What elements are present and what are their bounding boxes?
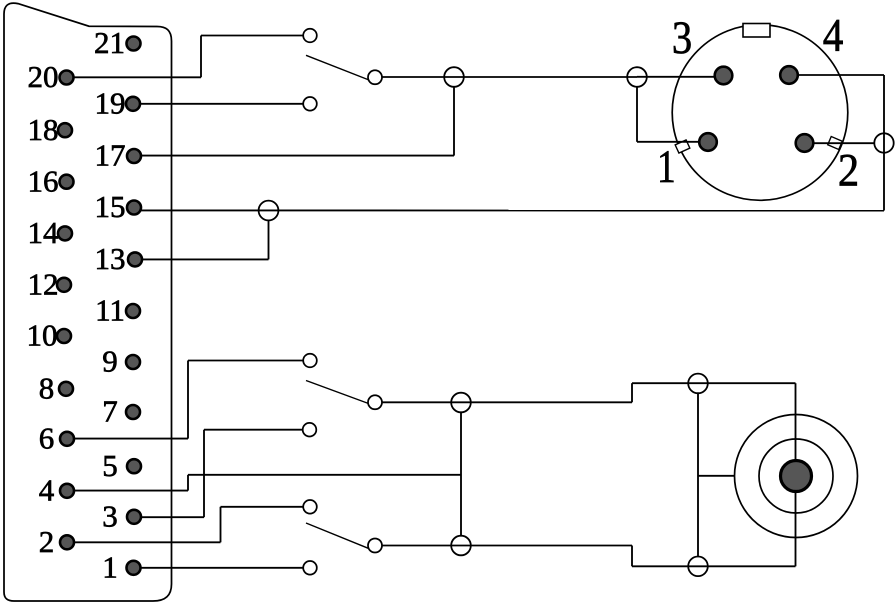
wire pin17 vertical to node A: [453, 87, 455, 156]
svg-text:8: 8: [39, 370, 55, 405]
wire pin3 vertical jog: [203, 430, 205, 518]
svg-text:18: 18: [28, 112, 59, 147]
wire pin15 rail to right side: [135, 209, 884, 211]
wire pin19 to switch SW1 contact b: [133, 103, 310, 105]
svg-text:21: 21: [94, 25, 125, 60]
wire pin13 vertical to node D: [268, 220, 270, 259]
switch SW1 contact a circle: [303, 29, 317, 43]
svg-text:20: 20: [28, 59, 59, 94]
DIN pin 1: [699, 133, 717, 151]
wire pin20 horizontal: [67, 76, 201, 78]
RCA connector J3 outer shield circle: [735, 415, 858, 538]
node E junction: [451, 393, 471, 413]
switch SW1 contact b circle: [303, 97, 317, 111]
node A junction: [444, 67, 464, 87]
wire pin20 vertical jog: [200, 36, 202, 78]
wire DIN pin 4 horizontal: [789, 74, 884, 76]
SCART pin 7: [126, 405, 140, 419]
node D junction: [259, 201, 279, 221]
node F junction: [451, 536, 471, 556]
DIN connector J2 keyway near pin 1: [675, 140, 690, 153]
wire node A to node B: [454, 76, 637, 78]
wire to RCA bottom: [632, 565, 796, 567]
SCART pin 8: [59, 382, 73, 396]
DIN pin 3: [715, 67, 733, 85]
DIN pin 4: [780, 66, 798, 84]
SCART pin 16: [60, 175, 74, 189]
switch SW3 contact a circle: [303, 500, 317, 514]
svg-text:11: 11: [95, 293, 125, 328]
wire to DIN pin 1: [637, 141, 708, 143]
SCART pin 6: [60, 432, 74, 446]
svg-text:5: 5: [102, 448, 118, 483]
wire pin4 to node bus: [188, 474, 461, 476]
wire pin3 to switch SW2 contact b: [204, 429, 310, 431]
SCART pin 21: [127, 37, 141, 51]
svg-text:1: 1: [102, 549, 118, 584]
wire pin6 to switch SW2 contact a: [188, 360, 310, 362]
svg-text:7: 7: [102, 394, 118, 429]
svg-text:4: 4: [39, 472, 55, 507]
node H junction: [688, 557, 708, 577]
svg-text:12: 12: [28, 266, 59, 301]
wire node G to node H vertical: [697, 393, 699, 557]
svg-text:17: 17: [95, 138, 126, 173]
wire node B to DIN pin 3: [637, 76, 724, 78]
switch SW2 arm: [306, 381, 369, 404]
SCART pin 3: [127, 510, 141, 524]
switch SW2 contact b circle: [303, 423, 317, 437]
wire jog up: [631, 383, 633, 402]
switch SW1 common circle: [368, 70, 382, 84]
DIN connector J2 keyway near pin 2: [828, 137, 843, 150]
DIN connector J2 top notch: [743, 24, 770, 38]
svg-text:10: 10: [27, 318, 58, 353]
wire node F right: [461, 545, 632, 547]
svg-text:4: 4: [823, 9, 844, 61]
SCART pin 11: [126, 304, 140, 318]
wire pin4 vertical jog: [187, 475, 189, 491]
SCART pin 1: [127, 561, 141, 575]
switch SW3 contact b circle: [303, 561, 317, 575]
wire pin2 vertical jog: [220, 507, 222, 543]
wire pin13 horizontal: [135, 258, 269, 260]
wire shield tap: [698, 475, 735, 477]
SCART pin 4: [60, 484, 74, 498]
wire SW3 common to node F: [375, 545, 461, 547]
SCART pin 9: [126, 355, 140, 369]
wire pin2 to switch SW3 contact a: [221, 506, 311, 508]
wire pin1 to switch SW3 contact b: [134, 567, 311, 569]
switch SW1 arm: [306, 55, 369, 80]
switch SW3 common circle: [368, 539, 382, 553]
node G junction: [688, 374, 708, 394]
wire pin17 horizontal: [134, 155, 454, 157]
DIN pin 2: [796, 134, 814, 152]
node C junction: [874, 133, 893, 152]
wire node E right: [461, 401, 632, 403]
svg-text:6: 6: [39, 420, 55, 455]
DIN connector J2 body circle: [672, 25, 848, 201]
SCART pin 18: [58, 123, 72, 137]
wire pin2 horizontal: [67, 541, 221, 543]
wire pin20 to switch SW1 contact a: [201, 35, 310, 37]
SCART pin 14: [58, 226, 72, 240]
SCART pin 12: [57, 278, 71, 292]
wire pin3 horizontal: [134, 516, 204, 518]
svg-text:9: 9: [102, 344, 118, 379]
wire pin6 horizontal: [67, 438, 188, 440]
wire jog down: [631, 546, 633, 567]
switch SW3 arm: [306, 523, 368, 548]
SCART pin 15: [127, 201, 141, 215]
wire RCA bottom vertical to center pin: [795, 493, 797, 567]
svg-text:2: 2: [39, 524, 55, 559]
SCART pin 5: [127, 459, 141, 473]
SCART pin 10: [57, 329, 71, 343]
svg-text:3: 3: [672, 12, 692, 64]
svg-text:2: 2: [838, 144, 859, 196]
svg-text:13: 13: [95, 241, 126, 276]
svg-text:14: 14: [28, 215, 60, 250]
RCA connector J3 middle ring: [759, 439, 833, 513]
wire RCA top vertical to center pin: [795, 383, 797, 459]
node B junction: [627, 67, 647, 87]
wire node B vertical: [636, 87, 638, 142]
SCART pin 13: [128, 252, 142, 266]
svg-text:15: 15: [95, 189, 126, 224]
wire pin4 horizontal: [67, 490, 188, 492]
svg-text:1: 1: [657, 141, 676, 193]
wire right side vertical: [883, 75, 885, 211]
SCART pin 2: [60, 535, 74, 549]
svg-text:19: 19: [95, 85, 126, 120]
SCART connector J1 outline: [4, 3, 172, 601]
wire SW1 common to node A: [375, 76, 454, 78]
SCART pin 19: [126, 97, 140, 111]
svg-text:16: 16: [28, 163, 59, 198]
wire DIN pin 2 to node C: [805, 142, 875, 144]
switch SW2 common circle: [368, 395, 382, 409]
RCA center pin: [781, 461, 812, 492]
SCART pin 20: [60, 71, 74, 85]
SCART pin 17: [127, 149, 141, 163]
wire pin6 vertical jog: [187, 361, 189, 439]
wire node E to node F vertical: [460, 412, 462, 536]
switch SW2 contact a circle: [303, 354, 317, 368]
svg-text:3: 3: [102, 498, 118, 533]
wire to RCA top: [632, 382, 796, 384]
wire SW2 common to node E: [375, 401, 461, 403]
